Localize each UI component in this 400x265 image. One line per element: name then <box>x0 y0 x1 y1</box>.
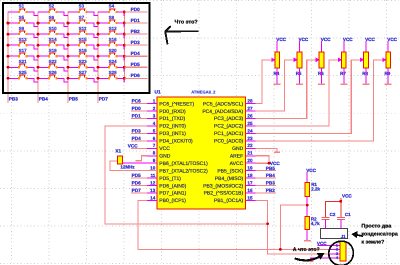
capacitor C2 <box>321 212 335 228</box>
svg-text:S13: S13 <box>19 37 28 42</box>
svg-text:21: 21 <box>247 151 253 156</box>
svg-text:X1: X1 <box>115 149 121 154</box>
svg-text:PD0: PD0 <box>132 106 142 111</box>
svg-text:S6: S6 <box>49 15 55 20</box>
svg-text:PD4_(XCK/T0): PD4_(XCK/T0) <box>159 139 193 145</box>
svg-text:4: 4 <box>153 121 156 126</box>
svg-text:6: 6 <box>153 136 156 141</box>
svg-text:PD5: PD5 <box>131 62 141 67</box>
switch S26 <box>38 70 68 82</box>
svg-text:PD7: PD7 <box>132 188 142 193</box>
svg-text:PB4: PB4 <box>266 173 276 178</box>
wire connector pin 3 <box>330 253 340 255</box>
svg-text:PB4: PB4 <box>39 96 49 101</box>
switch S17 <box>8 48 38 60</box>
svg-text:9: 9 <box>153 158 156 163</box>
junction pin4/pin15 <box>266 222 269 225</box>
resistor R4 <box>274 52 280 76</box>
svg-text:S1: S1 <box>19 4 25 9</box>
svg-text:PD1: PD1 <box>131 18 141 23</box>
wire U1 pin 26 to resistor R6 <box>255 58 320 119</box>
switch S14 <box>38 37 68 49</box>
svg-text:U1: U1 <box>155 89 161 95</box>
svg-text:16: 16 <box>247 188 253 193</box>
switch S12 <box>98 26 124 38</box>
U1 pin 9 PB6_(XTAL1/TOSC1) <box>147 158 208 167</box>
U1 pin 22 GND <box>232 143 255 152</box>
svg-text:к земле?: к земле? <box>361 239 384 245</box>
switch S27 <box>68 70 98 82</box>
svg-text:12MHz: 12MHz <box>120 165 135 170</box>
power VCC above R9 <box>387 37 397 52</box>
svg-text:R9: R9 <box>385 71 391 76</box>
svg-text:VCC: VCC <box>343 37 353 42</box>
svg-text:PC2_(ADC2): PC2_(ADC2) <box>214 124 244 130</box>
wire U1 pin 14 route to connector <box>138 200 340 249</box>
U1 pin 1 PC6_(^RESET) <box>147 99 194 108</box>
svg-text:PC6_(^RESET): PC6_(^RESET) <box>159 101 194 107</box>
junction dots keypad <box>7 11 126 80</box>
U1 pin 23 PC0_(ADC0) <box>214 136 255 145</box>
svg-text:15: 15 <box>247 195 253 200</box>
svg-text:28: 28 <box>247 99 253 104</box>
svg-text:PB7_(XTAL2/TOSC2): PB7_(XTAL2/TOSC2) <box>159 168 208 174</box>
keypad bounding box <box>3 3 150 93</box>
wire U1 pin 20 AVCC stub <box>255 162 269 164</box>
svg-text:S8: S8 <box>109 15 115 20</box>
svg-text:S15: S15 <box>79 37 88 42</box>
svg-text:14: 14 <box>150 195 156 200</box>
svg-text:2.2k: 2.2k <box>311 186 320 191</box>
wire U1 pin 9 to crystal <box>123 162 157 164</box>
svg-text:S20: S20 <box>109 48 118 53</box>
svg-text:S18: S18 <box>49 48 58 53</box>
svg-text:PD5_(T1): PD5_(T1) <box>159 176 181 182</box>
power VCC label at U1 pin 7 <box>128 143 147 148</box>
svg-text:2: 2 <box>153 106 156 111</box>
ground below R2 <box>304 230 311 241</box>
wire U1 pin 24 to resistor R8 <box>255 58 364 134</box>
svg-text:PD4: PD4 <box>131 51 141 56</box>
U1 pin 17 PB3_(MOSI/OC2) <box>203 180 255 189</box>
svg-text:S28: S28 <box>109 70 118 75</box>
node PD3 row wire <box>124 40 147 45</box>
U1 pin 8 GND <box>147 151 171 160</box>
svg-text:PC1_(ADC1): PC1_(ADC1) <box>214 131 244 137</box>
annotation circle around connector <box>329 241 354 265</box>
svg-text:VCC: VCC <box>159 146 170 152</box>
wire R1 to R2 <box>306 197 308 217</box>
node PD5 row wire <box>124 62 147 67</box>
resistor R6 <box>318 52 324 76</box>
ground at U1 pin 22 <box>255 148 279 152</box>
power VCC above R6 <box>321 37 331 52</box>
ground at U1 pin 8 <box>136 156 148 161</box>
svg-text:S24: S24 <box>109 59 118 64</box>
svg-text:Что это?: Что это? <box>175 20 198 26</box>
svg-text:VCC: VCC <box>306 168 316 173</box>
svg-text:А что это?: А что это? <box>293 247 320 253</box>
switch S16 <box>98 37 124 49</box>
power VCC above R4 <box>276 37 286 52</box>
wire column trunk PB5 <box>67 12 69 104</box>
svg-text:27: 27 <box>247 106 253 111</box>
svg-text:VCC: VCC <box>299 37 309 42</box>
svg-text:PD0_(RXD): PD0_(RXD) <box>159 109 186 115</box>
svg-text:S2: S2 <box>49 4 55 9</box>
switch S28 <box>98 70 124 82</box>
U1 pin 15 PB1_(OC1A) <box>214 195 255 204</box>
switch S23 <box>68 59 98 71</box>
svg-text:PB5_(SCK): PB5_(SCK) <box>217 168 243 174</box>
svg-text:3: 3 <box>153 113 156 118</box>
ground below R6 <box>318 68 325 84</box>
svg-text:PB3_(MOSI/OC2): PB3_(MOSI/OC2) <box>203 183 243 189</box>
svg-text:PB3: PB3 <box>266 181 276 186</box>
svg-text:26: 26 <box>247 113 253 118</box>
U1 pin 7 VCC <box>147 143 170 152</box>
svg-text:C1: C1 <box>345 212 351 217</box>
annotation arrow to keypad <box>165 27 198 44</box>
resistor R1 2.2k <box>305 182 321 196</box>
ground below R8 <box>363 68 370 84</box>
svg-text:PB3: PB3 <box>9 96 19 101</box>
svg-text:VCC: VCC <box>128 143 139 148</box>
wire U1 pin 23 to resistor R9 <box>255 58 386 141</box>
svg-text:GND: GND <box>232 146 244 152</box>
node PD6 label at U1 pin 12 <box>131 181 147 186</box>
resistor R5 <box>296 52 302 76</box>
svg-text:13: 13 <box>150 188 156 193</box>
node PD6 row wire <box>124 73 147 78</box>
svg-text:11: 11 <box>150 173 155 178</box>
power VCC above R1 <box>306 168 316 183</box>
svg-text:PB2_(^SS/OC1B): PB2_(^SS/OC1B) <box>204 191 244 197</box>
svg-text:1: 1 <box>153 99 156 104</box>
switch S10 <box>38 26 68 38</box>
node PB4 label at U1 right <box>255 173 275 178</box>
svg-text:PB6_(XTAL1/TOSC1): PB6_(XTAL1/TOSC1) <box>159 161 208 167</box>
connector J2 body <box>340 242 346 261</box>
connector J1 <box>321 228 348 239</box>
svg-text:PD6_(AIN0): PD6_(AIN0) <box>159 183 186 189</box>
wire connector pin 2 <box>330 248 340 250</box>
resistor R2 4,7k <box>305 217 320 230</box>
node PD0 row wire <box>124 7 147 12</box>
wire column trunk PB3 <box>7 12 9 104</box>
svg-text:S22: S22 <box>49 59 58 64</box>
svg-text:PC4_(ADC4/SDA): PC4_(ADC4/SDA) <box>202 109 243 115</box>
switch S19 <box>68 48 98 60</box>
annotation arrow to connector <box>296 253 325 261</box>
svg-text:PD5: PD5 <box>132 173 142 178</box>
svg-text:конденсатора: конденсатора <box>361 231 397 237</box>
connector J2 pin numbers <box>336 243 339 260</box>
wire U1 pin 15 route to connector <box>255 200 339 253</box>
wire connector pin 4 to ground <box>308 258 340 261</box>
node PD4 row wire <box>124 51 147 56</box>
switch S20 <box>98 48 124 60</box>
switch S6 <box>38 15 68 27</box>
junction AVCC/AREF <box>268 162 271 165</box>
svg-text:PB0_(ICP1): PB0_(ICP1) <box>159 198 186 204</box>
svg-text:12: 12 <box>150 180 156 185</box>
svg-text:PD6: PD6 <box>131 73 141 78</box>
svg-text:5: 5 <box>153 128 156 133</box>
wire U1 pin 25 to resistor R7 <box>255 58 342 126</box>
switch S22 <box>38 59 68 71</box>
wire U1 pin 27 to resistor R5 <box>255 58 297 112</box>
power VCC above R7 <box>343 37 353 52</box>
U1 pin 18 PB4_(MISO) <box>215 173 255 182</box>
svg-text:7: 7 <box>153 143 156 148</box>
U1 pin 24 PC1_(ADC1) <box>214 128 255 137</box>
ground below R9 <box>385 68 392 84</box>
U1 pin 25 PC2_(ADC2) <box>214 121 255 130</box>
resistor R9 <box>385 52 391 76</box>
node PB3 label at U1 right <box>255 181 275 186</box>
svg-text:VCC: VCC <box>321 37 331 42</box>
svg-text:S25: S25 <box>19 70 28 75</box>
svg-text:PD2_(INT0): PD2_(INT0) <box>159 124 186 130</box>
U1 pin 19 PB5_(SCK) <box>217 166 255 175</box>
switch S24 <box>98 59 124 71</box>
svg-text:S12: S12 <box>109 26 118 31</box>
svg-text:20: 20 <box>247 158 253 163</box>
ground below R7 <box>340 68 347 84</box>
svg-text:S10: S10 <box>49 26 58 31</box>
svg-text:23: 23 <box>247 136 253 141</box>
U1 pin 26 PC3_(ADC3) <box>214 113 255 122</box>
wire U1 pin 28 to resistor R4 <box>255 58 275 104</box>
svg-text:19: 19 <box>247 166 253 171</box>
svg-text:R7: R7 <box>340 71 346 76</box>
junction tap to pin14 net <box>279 248 282 251</box>
svg-text:VCC: VCC <box>317 241 327 246</box>
svg-text:S3: S3 <box>79 4 85 9</box>
svg-text:S26: S26 <box>49 70 58 75</box>
svg-text:S4: S4 <box>109 4 115 9</box>
svg-text:AREF: AREF <box>230 153 243 159</box>
switch S2 <box>38 4 68 16</box>
U1 pin 20 AVCC <box>230 158 256 167</box>
node PB5 label at U1 right <box>255 166 275 171</box>
wire divider tap to bottom net <box>280 205 307 249</box>
svg-text:S19: S19 <box>79 48 88 53</box>
svg-text:S11: S11 <box>79 26 87 31</box>
svg-text:S5: S5 <box>19 15 25 20</box>
svg-text:PD7: PD7 <box>99 96 109 101</box>
svg-text:S27: S27 <box>79 70 88 75</box>
capacitor C1 <box>337 212 351 228</box>
switch S4 <box>98 4 124 16</box>
crystal X1 <box>115 149 122 165</box>
wire column trunk PB4 <box>37 12 39 104</box>
power VCC above R5 <box>299 37 309 52</box>
switch S5 <box>8 15 38 27</box>
switch S9 <box>8 26 38 38</box>
switch S11 <box>68 26 98 38</box>
svg-text:S14: S14 <box>49 37 58 42</box>
junction divider tap <box>306 204 309 207</box>
svg-text:R5: R5 <box>296 71 302 76</box>
svg-text:S7: S7 <box>79 15 85 20</box>
svg-text:VCC: VCC <box>342 194 352 199</box>
svg-text:R6: R6 <box>318 71 324 76</box>
svg-text:AVCC: AVCC <box>230 161 244 167</box>
svg-text:24: 24 <box>247 128 253 133</box>
svg-text:S16: S16 <box>109 37 118 42</box>
svg-text:PC0_(ADC0): PC0_(ADC0) <box>214 139 244 145</box>
svg-text:PD3: PD3 <box>132 128 142 133</box>
svg-text:PC5_(ADC5/SCL): PC5_(ADC5/SCL) <box>203 101 244 107</box>
node PD1 row wire <box>124 18 147 23</box>
svg-text:PC6: PC6 <box>132 99 142 104</box>
svg-text:S21: S21 <box>19 59 28 64</box>
switch S21 <box>8 59 38 71</box>
U1 pin 28 PC5_(ADC5/SCL) <box>203 99 255 108</box>
svg-text:PD7_(AIN1): PD7_(AIN1) <box>159 191 186 197</box>
svg-text:22: 22 <box>247 143 253 148</box>
junction VCC rail <box>339 200 342 203</box>
power VCC above R8 <box>365 37 375 52</box>
switch S8 <box>98 15 124 27</box>
wire U1 pin 10 to crystal <box>110 161 157 171</box>
svg-text:PB1_(OC1A): PB1_(OC1A) <box>214 198 244 204</box>
svg-text:R4: R4 <box>274 71 280 76</box>
wire U1 pin 21 AREF to AVCC node <box>255 156 269 163</box>
svg-text:PD3: PD3 <box>131 40 141 45</box>
svg-text:PD0: PD0 <box>131 7 141 12</box>
node PD7 label at U1 pin 13 <box>131 188 147 193</box>
U1 pin 21 AREF <box>230 151 255 160</box>
svg-text:PB4_(MISO): PB4_(MISO) <box>215 176 244 182</box>
svg-text:C2: C2 <box>330 212 336 217</box>
U1 pin 4 PD2_(INT0) <box>147 121 186 130</box>
svg-text:VCC: VCC <box>365 37 375 42</box>
annotation text "Просто два конденсатора к земле?" <box>361 224 397 246</box>
svg-text:Просто два: Просто два <box>361 224 391 230</box>
U1 pin 5 PD3_(INT1) <box>147 128 186 137</box>
ground below R4 <box>274 68 281 84</box>
svg-text:18: 18 <box>247 173 253 178</box>
node PD3 label at U1 pin 5 <box>131 128 147 133</box>
svg-text:PD6: PD6 <box>132 181 142 186</box>
svg-text:VCC: VCC <box>276 37 286 42</box>
node PC6 label at U1 pin 1 <box>131 99 147 104</box>
svg-text:GND: GND <box>159 153 171 159</box>
svg-text:25: 25 <box>247 121 253 126</box>
U1 pin 10 PB7_(XTAL2/TOSC2) <box>147 166 208 175</box>
U1 pin 2 PD0_(RXD) <box>147 106 186 115</box>
svg-text:PD1: PD1 <box>132 114 142 119</box>
U1 pin 16 PB2_(^SS/OC1B) <box>204 188 256 197</box>
svg-text:S9: S9 <box>19 26 25 31</box>
switch S1 <box>8 4 38 16</box>
wire VCC rail to capacitors <box>325 201 340 217</box>
svg-text:S17: S17 <box>19 48 28 53</box>
svg-text:4,7k: 4,7k <box>311 221 320 226</box>
U1 pin 3 PD1_(TXD) <box>147 113 185 122</box>
U1 pin 11 PD5_(T1) <box>147 173 181 182</box>
node PD4 label at U1 pin 6 <box>131 136 147 141</box>
svg-text:PD4: PD4 <box>132 136 142 141</box>
switch S15 <box>68 37 98 49</box>
svg-text:17: 17 <box>247 180 253 185</box>
svg-text:PB2: PB2 <box>266 188 276 193</box>
resistor R7 <box>340 52 346 76</box>
svg-text:PB5: PB5 <box>69 96 79 101</box>
ground below R5 <box>296 68 303 84</box>
node PD1 label at U1 pin 3 <box>131 114 147 119</box>
svg-text:J1: J1 <box>341 234 346 239</box>
switch S13 <box>8 37 38 49</box>
svg-text:PC3_(ADC3): PC3_(ADC3) <box>214 116 244 122</box>
svg-text:8: 8 <box>153 151 156 156</box>
svg-text:VCC: VCC <box>387 37 397 42</box>
svg-text:ATMEGA8_2: ATMEGA8_2 <box>191 89 216 94</box>
node PD5 label at U1 pin 11 <box>131 173 147 178</box>
wire right column vertical <box>123 12 125 82</box>
U1 pin 12 PD6_(AIN0) <box>147 180 186 189</box>
svg-text:S23: S23 <box>79 59 88 64</box>
op-amp U1 ATMEGA8 body <box>157 97 246 209</box>
U1 pin 14 PB0_(ICP1) <box>147 195 186 204</box>
switch S3 <box>68 4 98 16</box>
U1 pin 6 PD4_(XCK/T0) <box>147 136 193 145</box>
svg-text:R8: R8 <box>362 71 368 76</box>
switch S7 <box>68 15 98 27</box>
node PD0 label at U1 pin 2 <box>131 106 147 111</box>
switch S25 <box>8 70 38 82</box>
wire U1 pin 4 long route <box>105 126 268 224</box>
U1 pin 13 PD7_(AIN1) <box>147 188 186 197</box>
power VCC above capacitors <box>341 194 353 202</box>
svg-text:10: 10 <box>150 166 156 171</box>
svg-text:PB2: PB2 <box>131 29 141 34</box>
svg-text:PD1_(TXD): PD1_(TXD) <box>159 116 185 122</box>
switch S18 <box>38 48 68 60</box>
wire column trunk PD7 <box>97 12 99 104</box>
annotation arrow to J1 <box>351 231 362 239</box>
U1 pin 27 PC4_(ADC4/SDA) <box>202 106 255 115</box>
svg-text:PD3_(INT1): PD3_(INT1) <box>159 131 186 137</box>
svg-text:PB5: PB5 <box>266 166 276 171</box>
node PB2 label at U1 right <box>255 188 275 193</box>
resistor R8 <box>362 52 368 76</box>
power VCC at connector pin 1 <box>317 241 340 246</box>
node PB2 row wire <box>124 29 147 34</box>
